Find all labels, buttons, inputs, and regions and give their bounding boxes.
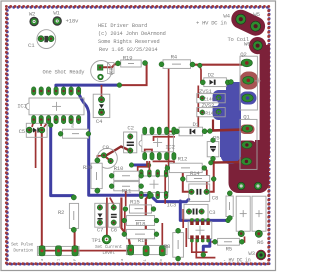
wire red R14-C8 U links (183, 159, 214, 192)
pad C9 inner2 (108, 158, 113, 163)
zener ZVS2 value (203, 111, 222, 116)
svg-text:D2: D2 (208, 72, 215, 79)
capacitor C3 label (209, 209, 216, 216)
node +18v label (66, 18, 79, 25)
pad C7 top (97, 205, 102, 210)
pad R11 left (109, 184, 114, 189)
pad R20 bottom (95, 188, 100, 193)
resistor R20 label (83, 164, 93, 171)
svg-text:C4: C4 (96, 118, 103, 125)
net Set Current Level label (95, 244, 123, 256)
svg-text:Some Rights Reserved: Some Rights Reserved (98, 39, 160, 45)
resistor R8 label (164, 243, 171, 250)
wire blue IC1 area down to R11 row (79, 94, 189, 202)
pad R1 right (86, 131, 91, 136)
wire red R12 to D5 (204, 168, 207, 192)
pad R10 left (109, 173, 114, 178)
pad IC3 socket top row (139, 170, 168, 178)
resistor R11 outline (114, 182, 139, 191)
node W1 label (53, 9, 60, 16)
pad Q1 pin1 (242, 125, 252, 132)
pad R1 left (58, 131, 63, 136)
pad C2 top (128, 134, 133, 139)
pad R13 bottom (227, 216, 232, 221)
pad D5 bottom (211, 156, 216, 161)
svg-text:W6: W6 (244, 41, 251, 48)
wire blue IC3 bus (180, 201, 227, 255)
pad R4 right (190, 62, 195, 67)
resistor R16 label (138, 237, 148, 244)
pad W3 (256, 250, 266, 260)
svg-text:R18: R18 (136, 221, 146, 228)
polygon HV bus bar right (260, 45, 270, 155)
node W5 label (253, 11, 260, 18)
wire red set-current feeders (125, 196, 163, 247)
pad TP1 ring (102, 235, 111, 244)
op-amp IC3 socket outline (139, 176, 168, 192)
pad R19 right (143, 61, 148, 66)
pad D1 left (174, 129, 179, 134)
pad C10 bottom (238, 231, 244, 237)
resistor R5 outline (218, 238, 240, 245)
net - HV DC in label (223, 257, 251, 263)
polygon To Coil W6 blob (249, 37, 266, 54)
pad C5 left (26, 127, 32, 133)
pad junction bottom rail (72, 246, 78, 256)
capacitor C6 label (111, 226, 118, 233)
capacitor C9 label (102, 144, 109, 151)
polygon top-copper at Q1 pad1 (240, 125, 255, 135)
node TP1 label (92, 237, 102, 244)
resistor R4 outline (163, 60, 191, 69)
svg-text:Duration: Duration (13, 248, 33, 254)
pad R11 right (139, 184, 144, 189)
wire red R4 to Q2 gate (193, 64, 243, 66)
capacitor C1 label (28, 42, 35, 49)
pin labels set pulse (41, 258, 78, 261)
board outline dotted red (6, 6, 268, 263)
wire red C4 stub (101, 85, 103, 97)
pad set current 2 (143, 246, 149, 256)
pad junction left of IC3 socket (136, 171, 140, 175)
svg-text:R10: R10 (114, 165, 124, 172)
pad C1 right (48, 36, 54, 42)
wire blue stub at IC2 bottom left (132, 164, 149, 167)
wire red D1 pads link (205, 130, 210, 132)
zener ZVS1 label (199, 88, 212, 95)
op-amp IC1 outline (26, 98, 84, 115)
svg-text:+18v: +18v (66, 18, 79, 25)
resistor R2 outline (69, 203, 78, 228)
diode D2 label (208, 72, 215, 79)
node W2 label (29, 11, 36, 18)
net Set Pulse Duration label (11, 241, 34, 253)
LED label (110, 67, 115, 75)
svg-text:R6: R6 (257, 239, 264, 246)
svg-text:R16: R16 (138, 237, 148, 244)
svg-text:C3: C3 (209, 209, 216, 216)
net + HV DC in label (196, 20, 227, 27)
wire red LED to R19 (103, 64, 118, 67)
net One Shot Ready label (43, 70, 86, 76)
pad R8 bottom (176, 256, 181, 261)
resistor R12 label (178, 156, 188, 163)
pad LED anode square (98, 65, 103, 70)
svg-text:LED: LED (110, 67, 115, 75)
LED D? circle outline (91, 61, 114, 82)
polygon bottom-right ground blob (229, 140, 270, 193)
zener ZVS1 outline (197, 94, 225, 103)
wire red stub above D1 junction (212, 120, 214, 131)
svg-text:R5: R5 (226, 245, 233, 252)
pad ZVS2 left (200, 110, 205, 115)
pad C9 inner1 (101, 153, 106, 158)
pad IC1 top row holes (33, 90, 80, 92)
svg-text:C8: C8 (212, 194, 219, 201)
pad W2 (29, 17, 38, 26)
op-amp IC3 label (167, 202, 177, 209)
pad IC1 bottom row (32, 115, 81, 123)
resistor R13 outline (226, 196, 233, 217)
capacitor C2 label (127, 125, 134, 132)
wire red IC2 to IC3 socket feeders (138, 161, 166, 172)
pad R2 top (71, 195, 76, 200)
svg-text:C7: C7 (97, 226, 103, 233)
resistor R18 outline (126, 216, 154, 226)
wire red R2 bottom (74, 231, 76, 251)
svg-text:C6: C6 (111, 226, 118, 233)
pad D5 top (211, 138, 216, 143)
resistor R15 outline (130, 205, 152, 213)
pad R2 bottom (71, 227, 76, 232)
svg-text:C5: C5 (19, 128, 26, 135)
wire red R19 right elbow (119, 63, 146, 85)
diode D5 outline (207, 142, 219, 157)
resistor R11 label (122, 188, 132, 195)
pad Q1 pin2 (242, 141, 252, 148)
svg-text:IC2: IC2 (165, 143, 175, 150)
wire red C7 C6 bits (107, 198, 130, 245)
wire red bottom rail (42, 250, 128, 252)
wire red IC2 inner staple (145, 150, 152, 155)
pad C5 right (39, 127, 45, 133)
pad R5 left (213, 239, 218, 244)
svg-text:D5: D5 (213, 135, 220, 142)
pad IC1 top row (32, 87, 81, 95)
svg-text:R4: R4 (171, 53, 178, 60)
pad R18 right (154, 218, 159, 223)
capacitor C5 outline (26, 123, 47, 137)
zener ZVS2 outline (197, 108, 225, 117)
transistor Q1 outline (240, 119, 257, 169)
wire red C2 to C9 curve (106, 147, 131, 156)
pad via blue C5 (48, 123, 53, 128)
title text block (98, 23, 166, 53)
wire blue C5 down to R2 top (51, 126, 73, 196)
net To Coil label (228, 36, 249, 43)
pad R8 top (176, 228, 181, 233)
pad R10 right (139, 173, 144, 178)
resistor R10 label (114, 165, 124, 172)
diode D1 outline (179, 127, 203, 136)
board outline dotted blue (7, 7, 269, 264)
capacitor C4 label (96, 118, 103, 125)
pad Q2 pin3 (242, 94, 253, 102)
pad C1 left (38, 36, 44, 42)
node W4 label (223, 12, 230, 19)
capacitor C3 outline (184, 204, 208, 219)
pin labels set current (121, 258, 164, 262)
svg-text:W4: W4 (223, 12, 230, 19)
pad R16 right (154, 232, 159, 237)
resistor R14 label (190, 170, 200, 177)
svg-text:One Shot Ready: One Shot Ready (43, 70, 86, 76)
pad IC2 top row (143, 127, 176, 135)
node W6 label (244, 41, 251, 48)
op-amp IC2 label (165, 143, 175, 150)
pad R4 left (159, 62, 164, 67)
pad W4 (236, 14, 246, 24)
pad R18 left (122, 218, 127, 223)
pad R15 left (123, 207, 128, 212)
resistor R1 label (72, 122, 76, 127)
svg-text:C9: C9 (102, 144, 109, 151)
capacitor C6 outline (108, 203, 119, 227)
pad C3 right (199, 209, 204, 214)
svg-text:4R14621: 4R14621 (203, 111, 222, 116)
op-amp IC1 label (17, 103, 27, 110)
pad R19 left (116, 61, 121, 66)
pad R15 right (151, 207, 156, 212)
pad via D5-Q1 (209, 160, 214, 165)
pad ZVS2 right (216, 109, 221, 114)
pad set pulse 1 (39, 246, 45, 256)
resistor R4 label (171, 53, 178, 60)
resistor R10 outline (114, 171, 139, 180)
pad via blue IC2 (146, 163, 151, 168)
pad via Q2 gate (198, 63, 203, 68)
svg-text:R14: R14 (190, 170, 200, 177)
svg-text:Q1: Q1 (243, 114, 250, 121)
svg-text:(c) 2014 John DeArmond: (c) 2014 John DeArmond (98, 31, 166, 37)
pad C4 top (98, 97, 104, 103)
pad R12 right (202, 166, 207, 171)
pad D2 right (225, 80, 230, 85)
pad set pulse 2 (55, 246, 61, 256)
svg-text:W2: W2 (29, 11, 36, 18)
pad blue bottom end (201, 252, 206, 257)
svg-text:ZVS2: ZVS2 (202, 102, 215, 109)
diode D2 outline (204, 78, 227, 87)
pad IC1 bottom row holes (33, 118, 80, 120)
svg-text:W5: W5 (253, 11, 260, 18)
diode D1 label (193, 121, 200, 128)
wire red drop to D2 (200, 65, 201, 82)
pad C2 bottom (128, 148, 133, 153)
pad Q2 pin2 (243, 76, 254, 84)
transistor Q2 outline (240, 56, 261, 110)
zener ZVS1 value (204, 97, 220, 102)
svg-text:R2: R2 (58, 209, 65, 216)
pad set current 1 (128, 245, 134, 255)
resistor R18 label (136, 221, 146, 228)
pad R13 top (227, 191, 232, 196)
svg-text:R15: R15 (130, 198, 140, 205)
svg-text:Set Pulse: Set Pulse (11, 241, 34, 247)
resistor R12 outline (169, 163, 202, 172)
svg-text:R8: R8 (164, 243, 171, 250)
pad Q1 pin3 (241, 158, 251, 165)
wire red C5 left down (35, 131, 37, 168)
svg-text:+ HV DC in: + HV DC in (196, 20, 227, 27)
polygon big blue bottom-copper region (211, 82, 257, 164)
svg-text:- HV DC in: - HV DC in (223, 257, 251, 263)
wire red ZVS feeders (197, 86, 199, 128)
diode D5 label (213, 135, 220, 142)
svg-text:R12: R12 (178, 156, 188, 163)
transistor Q1 label (243, 114, 250, 121)
svg-text:Set Current: Set Current (95, 244, 123, 250)
op-amp IC2 outline (139, 135, 173, 152)
pad blue stem top (229, 80, 234, 85)
pad R14 left (180, 177, 185, 182)
svg-text:IC3: IC3 (167, 202, 177, 209)
wire red DIP bottom rails (192, 239, 216, 258)
pad junction blue-red y85 (117, 83, 122, 88)
svg-text:Rev 1.05 02/25/2014: Rev 1.05 02/25/2014 (99, 47, 158, 53)
wire red D1 to Q1 (210, 129, 246, 130)
pad C8 left (189, 189, 194, 194)
zener ZVS2 label (202, 102, 215, 109)
wire red D2 to blue stem (228, 81, 231, 83)
node W3 label (248, 250, 255, 257)
svg-text:ZVS1: ZVS1 (199, 88, 212, 95)
polygon top-copper blob at Q2 (240, 72, 259, 90)
pad C4 bottom (98, 109, 104, 115)
pad C6 bottom (111, 220, 116, 225)
pad R5 right (240, 239, 245, 244)
capacitor C8 label (212, 194, 219, 201)
wire blue IC1 pin4 to junction (56, 85, 120, 92)
pad C3 left (186, 209, 191, 214)
pad blue right end (226, 218, 231, 223)
pad W5 (251, 21, 261, 31)
pad IC3 socket holes (140, 172, 167, 196)
svg-text:Level: Level (102, 250, 115, 256)
svg-text:R1: R1 (72, 122, 76, 127)
op-amp IC3 DIP8 (188, 218, 212, 242)
svg-text:D1: D1 (193, 121, 200, 128)
pad R6 (255, 230, 262, 237)
resistor R15 label (130, 198, 140, 205)
wire red DIP left feeders (183, 209, 186, 247)
pad Q2 pin1 (241, 59, 252, 67)
wire red R5 links (212, 237, 245, 242)
pad R14 right (211, 177, 216, 182)
pad R20 top (95, 158, 100, 163)
pad IC3 socket bottom row (139, 191, 168, 199)
pad D2 left (200, 80, 205, 85)
capacitor C8 outline (189, 184, 210, 201)
svg-text:C1: C1 (28, 42, 35, 49)
pad R12 left (165, 166, 170, 171)
capacitor C7 outline (95, 203, 106, 227)
svg-text:R11: R11 (122, 188, 132, 195)
resistor R5 label (226, 245, 233, 252)
capacitor C5 label (19, 128, 26, 135)
svg-text:W3: W3 (248, 250, 255, 257)
pad LED cathode (98, 74, 104, 80)
resistor R2 label (58, 209, 65, 216)
wire red to D1 left (169, 130, 177, 132)
wire red IC2 bottom rail (153, 161, 174, 166)
svg-text:W1: W1 (53, 9, 60, 16)
connector Set Pulse outline (37, 246, 79, 255)
pad W1 (53, 16, 62, 25)
transistor Q2 label (240, 51, 247, 58)
capacitor C7 label (97, 226, 103, 233)
resistor R19 outline (121, 60, 142, 67)
svg-text:IC1: IC1 (17, 103, 27, 110)
resistor R8 outline (173, 233, 184, 258)
pad blue junction (149, 193, 154, 198)
wire red mid verticals near IC3 (126, 171, 166, 206)
wire red D5 to Q1 pin3 (212, 161, 245, 164)
pad W6 (253, 41, 262, 50)
svg-text:Q2: Q2 (240, 51, 247, 58)
resistor R14 outline (187, 176, 210, 182)
capacitor C11 outline (252, 196, 266, 231)
pad C8 right (204, 189, 209, 194)
resistor R6 label (257, 239, 264, 246)
pad C6 top (111, 205, 116, 210)
wire red R20 to C9 (97, 155, 103, 160)
capacitor C4 outline (93, 94, 110, 117)
svg-text:TP1: TP1 (92, 237, 102, 244)
capacitor C1 outline (37, 30, 56, 49)
pad ground blob hole1 (238, 182, 245, 189)
pad ZVS1 right (216, 95, 221, 100)
pad ZVS1 left (200, 96, 205, 101)
wire red C9 pads link (104, 155, 111, 161)
wire red R4 column (162, 64, 169, 168)
capacitor C10 outline (236, 196, 250, 231)
wire red under IC2 top pads (154, 137, 176, 141)
pad C7 bottom (97, 220, 102, 225)
pad set current 3 (159, 246, 165, 256)
capacitor C2 outline (124, 132, 137, 153)
resistor R20 outline (91, 163, 102, 188)
polygon +HV pill W4 W5 (241, 19, 256, 26)
wire red C5 mid to bottom rail (41, 131, 43, 251)
svg-text:C2: C2 (127, 125, 134, 132)
connector Set Current outline (127, 245, 168, 254)
pad R16 left (122, 232, 127, 237)
resistor R16 outline (126, 229, 154, 238)
capacitor C9 outline (97, 148, 117, 168)
svg-text:R20: R20 (83, 164, 93, 171)
wire red IC1 pins to C5 (32, 121, 49, 127)
pad IC2 bottom row (143, 152, 176, 160)
resistor R19 label (123, 54, 133, 61)
pad via D1-Q1 (208, 129, 213, 134)
resistor R1 outline (63, 129, 89, 138)
pad D1 right (202, 129, 207, 134)
svg-text:HEI Driver Board: HEI Driver Board (98, 23, 147, 29)
svg-text:R19: R19 (123, 54, 133, 61)
pad via blue IC2 left (129, 163, 134, 168)
pad ground blob hole2 (254, 182, 261, 189)
